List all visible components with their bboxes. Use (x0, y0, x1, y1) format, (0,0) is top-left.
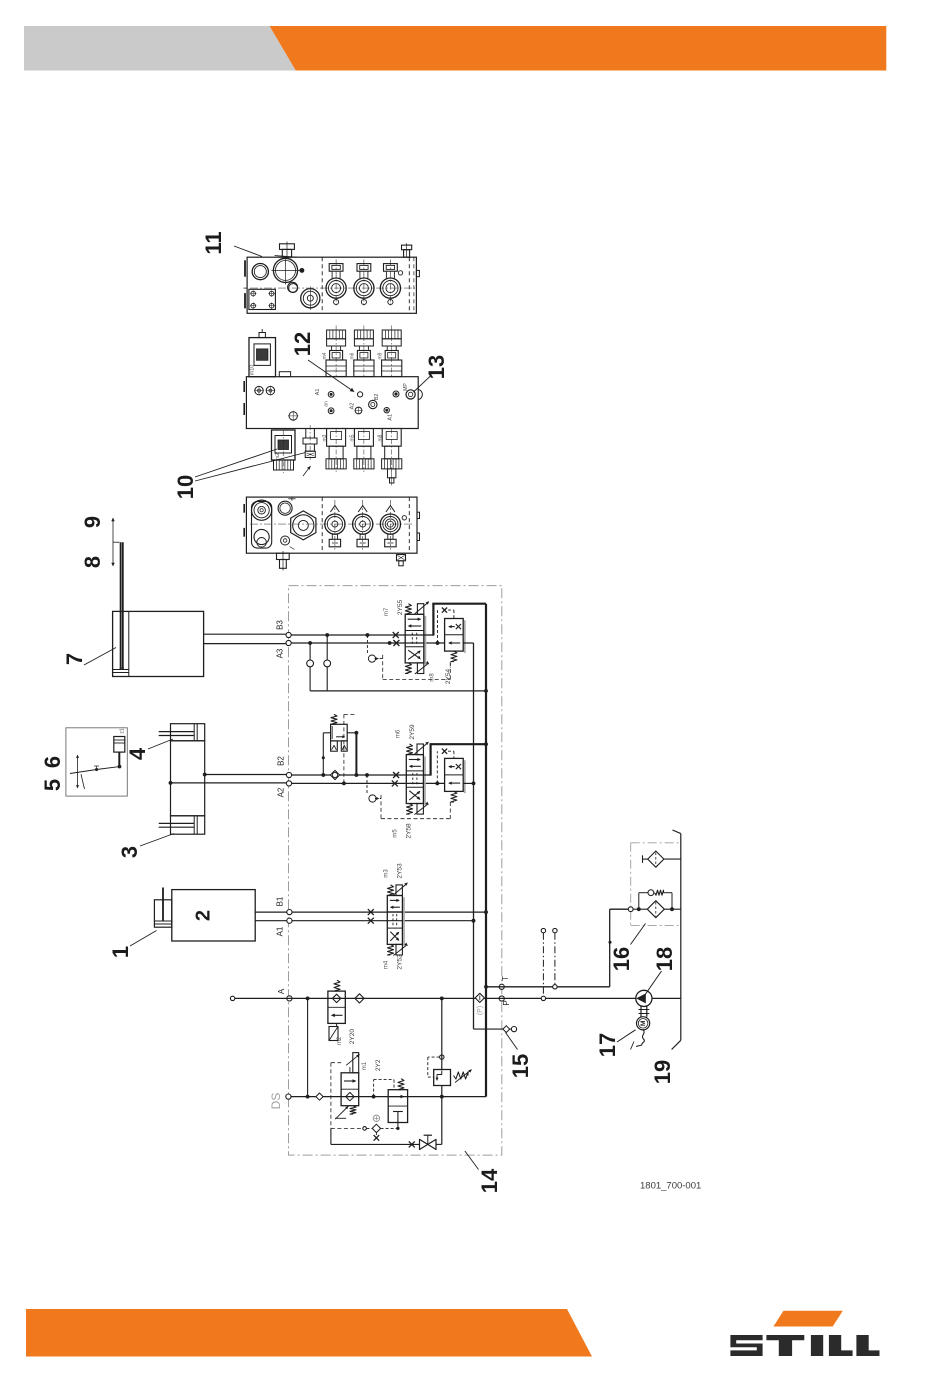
view B bolt circles (254, 386, 275, 396)
compensator pilot X section 3 (436, 608, 454, 645)
svg-text:8: 8 (80, 556, 105, 568)
svg-text:B2: B2 (374, 394, 380, 401)
junction A2-trunkT (472, 782, 476, 786)
svg-text:9: 9 (80, 516, 105, 528)
junction wire3-trunkP (484, 689, 488, 693)
accumulator item 1 (154, 888, 171, 928)
svg-text:m7: m7 (384, 607, 390, 616)
inline orifice on DS (316, 1093, 323, 1100)
proportional valve 2Y53/2Y52 (section 1) (384, 863, 408, 970)
svg-text:m6: m6 (350, 352, 356, 359)
section 3 A3 line to compensator (463, 642, 473, 644)
pilot check valve section 2 (367, 775, 381, 802)
trunk T lower elbow to drain port 15 (474, 1026, 517, 1033)
view A centerline (250, 287, 415, 289)
orifice drop line 2 (326, 635, 328, 691)
STILL logo orange parallelogram (773, 1311, 842, 1327)
electric motor (item 17) (637, 1017, 650, 1030)
compensator pilot X section 2 (435, 749, 454, 786)
junction B2-left (321, 773, 325, 777)
leader line for 17 (617, 1030, 636, 1042)
svg-text:DS: DS (269, 1093, 283, 1110)
solenoid valve 2Y20 (328, 980, 356, 1045)
leader line for 15 (506, 1033, 518, 1050)
svg-text:MP: MP (403, 383, 409, 391)
svg-text:B3: B3 (276, 620, 285, 630)
brake valve assembly section 2 (322, 714, 359, 783)
plug X on B2 (393, 772, 399, 778)
orifice circle 1 (307, 660, 314, 667)
svg-text:m6: m6 (396, 729, 402, 738)
unloader drain line (396, 1123, 399, 1131)
section 2 A2 to compensator (463, 782, 473, 784)
orifice drop line 1 (309, 643, 311, 691)
wire A to P (main pressure line) (233, 997, 637, 999)
inline check valve on A line (355, 994, 364, 1003)
pressure compensator section 2 (445, 758, 465, 802)
svg-text:A1: A1 (315, 389, 321, 396)
svg-text:m10: m10 (249, 365, 255, 376)
breather filter (643, 851, 681, 867)
junction B1-trunkP (484, 910, 488, 914)
open end circle on A line (230, 996, 234, 1000)
svg-text:14: 14 (477, 1168, 502, 1193)
pilot check valve section 3 (367, 635, 382, 662)
wire A2 (292, 782, 445, 784)
svg-text:13: 13 (424, 355, 449, 379)
tilt cylinder port lines B2 A2 (169, 773, 287, 785)
view B small arrow marker below (303, 466, 311, 476)
pressure compensator section 3 (445, 619, 465, 669)
plug X on A2 (392, 780, 398, 786)
steering unit port lines B1 A1 (255, 912, 287, 921)
svg-text:16: 16 (609, 947, 634, 971)
svg-text:17: 17 (595, 1033, 620, 1057)
view A relief cavity circle (288, 282, 298, 292)
measuring coupling under 2Y2 (363, 1115, 398, 1141)
svg-text:A2: A2 (349, 403, 355, 410)
svg-text:m5: m5 (392, 829, 398, 838)
svg-text:11: 11 (201, 231, 226, 254)
leader line for 7 (84, 648, 116, 666)
trunk drain line (relief to DS to drain) (441, 998, 443, 1144)
view B bottom solenoid cartridges (322, 429, 346, 473)
wire T return (484, 909, 628, 988)
svg-text:19: 19 (650, 1060, 675, 1084)
drain ball valve (420, 1135, 437, 1149)
electric line to pressure switch (dash-dot) 1 (541, 928, 545, 1000)
view B small plug cartridge (item 10 target 2) (303, 425, 317, 460)
view A mid circle (289, 284, 298, 293)
view A side screw circle (398, 271, 402, 275)
junction A-1 (306, 997, 310, 1001)
svg-text:A2: A2 (277, 787, 286, 797)
section 2 P feed thick line (423, 744, 486, 775)
tilt cylinder frame body (171, 741, 205, 816)
vertical link A-DS (307, 998, 309, 1096)
proportional valve 2Y59/2Y58 (section 2 tilt) (392, 724, 429, 839)
svg-text:15: 15 (508, 1054, 533, 1078)
tank bracket (item 19) (672, 830, 681, 1050)
hydraulic pump (item 18) (636, 990, 652, 1006)
svg-text:m8: m8 (430, 673, 436, 682)
view A cartridge port 3 (380, 260, 400, 306)
svg-text:P: P (502, 1000, 511, 1005)
leader line for 3 (140, 834, 174, 847)
cylinder 7 port lines B3 A3 (204, 634, 286, 643)
wire DS (291, 1096, 486, 1098)
plug X on drain (409, 1141, 415, 1147)
port A3 (286, 640, 291, 645)
svg-text:m2: m2 (337, 1036, 343, 1045)
leader line for 4 (148, 739, 173, 749)
svg-text:4: 4 (125, 747, 150, 760)
svg-text:M: M (640, 1021, 647, 1026)
svg-text:10: 10 (173, 475, 198, 499)
wire B2 (292, 774, 424, 776)
svg-text:A1: A1 (276, 926, 285, 936)
cylinder 7 piston rod (items 8/9) (120, 542, 125, 668)
svg-text:2Y20: 2Y20 (349, 1029, 356, 1045)
view C hex plug P (291, 511, 316, 540)
plug X on A3 (393, 640, 399, 646)
return filter (628, 901, 681, 918)
valve block view A (item 11) body (244, 257, 417, 313)
leader lines for 10 (195, 449, 306, 481)
junction B2-right (355, 773, 359, 777)
stroke arrows for items 8 and 9 (111, 518, 119, 567)
pilot operated valve (unloader) (374, 1079, 408, 1123)
motor cable (631, 1030, 645, 1050)
view C left cartridge assembly (252, 500, 272, 548)
svg-text:2Y53: 2Y53 (397, 863, 404, 879)
leader line for 1 (130, 931, 157, 947)
view B big solenoid top-left (2Y) (249, 329, 276, 377)
port T (499, 984, 504, 989)
svg-text:2Y58: 2Y58 (405, 823, 412, 839)
view A mounting plate with bolts (249, 289, 276, 309)
svg-text:2Y54: 2Y54 (445, 669, 452, 685)
svg-text:B2: B2 (277, 756, 286, 766)
junction DS-1 (306, 1095, 310, 1099)
view B third cartridge extra bolt (388, 469, 396, 486)
view B gallery ports row (315, 389, 399, 421)
STILL logotype (730, 1335, 879, 1356)
view A small plug dot (300, 268, 304, 272)
svg-text:1801_700-001: 1801_700-001 (640, 1181, 701, 1192)
view A big bore circle (272, 257, 300, 285)
view C cartridge port 1 (325, 500, 345, 550)
svg-text:2Y55: 2Y55 (397, 600, 404, 616)
plug X on A1 (368, 918, 374, 924)
view A cartridge port 2 (354, 260, 374, 306)
pump-motor shaft (639, 1007, 650, 1017)
port A2 (286, 781, 291, 786)
port A (287, 996, 292, 1001)
view A top plug fitting right (402, 243, 412, 257)
lift cylinder 7 body (113, 611, 204, 676)
view C bottom-left plug fitting (277, 551, 290, 571)
svg-text:5: 5 (40, 779, 65, 791)
junction B2-pilot (365, 773, 369, 777)
view C small port circle top (278, 497, 295, 515)
schematic dash-dot border (valve block boundary, item 14) (289, 586, 502, 1156)
leader line for 14 (465, 1151, 479, 1170)
junction A1-trunkT (472, 919, 476, 923)
svg-text:(P): (P) (477, 1006, 484, 1015)
proportional relief valve 2Y2 (335, 1053, 382, 1120)
main relief valve (434, 1069, 472, 1085)
svg-text:B1: B1 (276, 896, 285, 906)
view A cartridge port 1 (326, 260, 346, 306)
filter bypass check valve (639, 890, 672, 909)
view C centerline (250, 523, 414, 525)
view C cartridge port 2 (353, 500, 373, 550)
svg-text:m4: m4 (322, 352, 328, 359)
svg-text:z1: z1 (119, 728, 125, 734)
leader line for 16 (631, 924, 646, 945)
view C section split dashed lines (321, 497, 323, 553)
svg-text:A3: A3 (276, 648, 285, 658)
svg-text:m3: m3 (322, 434, 328, 441)
junction DS-3 (440, 1095, 444, 1099)
junction DS-2 (372, 1095, 376, 1099)
view B lower-left circle port (288, 411, 298, 421)
svg-text:2Y52: 2Y52 (397, 954, 404, 970)
view C cartridge port 3 (380, 500, 400, 550)
port A1 (287, 918, 292, 923)
tilt cylinder 3 (lower) (159, 816, 205, 834)
valve block view B body (244, 372, 418, 429)
leader line for 11 (234, 246, 262, 257)
view C third port side screw (402, 516, 406, 520)
section 3 dashed enclosure (383, 655, 451, 680)
view A right edge boss (416, 270, 419, 276)
steering unit item 2 (172, 890, 255, 941)
section 3 P feed thick line (424, 604, 486, 636)
junction A-2 (440, 997, 444, 1001)
electric line to pressure switch (dash-dot) 2 (553, 928, 557, 989)
view C bottom-right bolt (397, 555, 406, 566)
view A top plug fitting left (275, 242, 298, 260)
leader line for 13 (414, 375, 432, 392)
wire section3 lower return (310, 690, 486, 692)
trunk line P (vertical) (485, 604, 487, 1097)
wire P to pump right (651, 997, 681, 999)
svg-text:m3: m3 (384, 869, 390, 878)
svg-text:2Y59: 2Y59 (409, 724, 416, 740)
junction P-feed2 (484, 742, 488, 746)
junction A3-1 (308, 641, 312, 645)
svg-text:1: 1 (108, 946, 133, 958)
view B top solenoid cartridges (322, 326, 346, 379)
port B1 (287, 910, 292, 915)
trunk line T (vertical) (473, 643, 475, 1029)
header gray bar (24, 26, 296, 71)
svg-text:12: 12 (290, 332, 315, 356)
port P (499, 996, 504, 1001)
tank boundary dash-dot (item 16 filters) (631, 843, 681, 926)
wire A3 (291, 642, 444, 644)
inline check on B2 (330, 770, 339, 779)
wire A1 (292, 920, 474, 922)
svg-text:m1: m1 (362, 1061, 368, 1070)
valve block view C body (244, 497, 419, 553)
plug X on B3 (393, 632, 399, 638)
svg-text:T: T (501, 976, 510, 981)
junction A3-2 (388, 641, 392, 645)
drain line bottom (331, 1128, 442, 1144)
tilt cylinder 4 (upper) (159, 724, 205, 741)
svg-text:m8: m8 (378, 434, 384, 441)
measuring point (P) on pressure line (475, 993, 484, 1002)
view B bottom big solenoid (item 10 target) (272, 430, 296, 473)
svg-text:7: 7 (62, 653, 87, 665)
view A gauge boss circle (301, 287, 320, 311)
view C small port circle bottom (281, 536, 295, 550)
svg-text:18: 18 (652, 947, 677, 971)
svg-text:3: 3 (117, 846, 142, 858)
2Y2 dashed pilot box (331, 1063, 365, 1129)
plug X on B1 (368, 909, 374, 915)
leader line for 18 (644, 971, 662, 997)
svg-text:A1: A1 (387, 414, 393, 421)
port B3 (286, 632, 291, 637)
junction A2-brake (342, 782, 346, 786)
view A port circle left (252, 264, 268, 280)
junction B3-1 (325, 633, 329, 637)
footer orange bar (26, 1309, 592, 1357)
svg-text:m9: m9 (378, 352, 384, 359)
relief pilot dashed loop (428, 1055, 444, 1077)
svg-text:2Y2: 2Y2 (375, 1059, 382, 1071)
inset box items 5/6 (tilt sensor sketch) (66, 728, 127, 796)
header orange bar (270, 26, 887, 71)
section 2 dashed enclosure (381, 795, 450, 819)
svg-text:A: A (277, 988, 286, 994)
wire B3 (291, 634, 424, 636)
svg-text:6: 6 (40, 756, 65, 768)
junction B3-2 (366, 633, 370, 637)
view A section split dashed lines (321, 257, 323, 313)
proportional valve 2Y55 (section 3 lift) (384, 600, 452, 685)
svg-text:m5: m5 (350, 434, 356, 441)
port DS (286, 1094, 291, 1099)
wire B1 (292, 911, 486, 913)
svg-text:2: 2 (192, 910, 214, 921)
leader arrow for 12 (308, 360, 355, 392)
view B port MP (item 13 target) (403, 383, 423, 400)
svg-text:an: an (323, 401, 329, 407)
orifice circle 2 (324, 660, 331, 667)
svg-text:m4: m4 (384, 960, 390, 969)
port B2 (286, 772, 291, 777)
